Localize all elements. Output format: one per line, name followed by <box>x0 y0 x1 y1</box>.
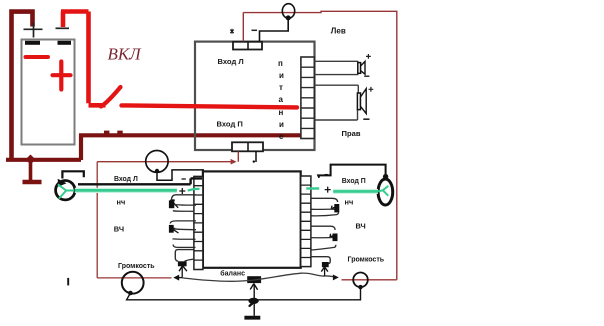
svg-text:и: и <box>279 120 284 129</box>
wire black from top circle to amp top connector <box>260 18 289 42</box>
label plus black above left terminal <box>24 23 43 38</box>
potentiometer R3 volume left loop wire <box>175 250 194 262</box>
wire maroon riser to power rail <box>79 135 83 160</box>
svg-text:баланс: баланс <box>220 269 245 277</box>
svg-text:Громкость: Громкость <box>348 257 385 264</box>
label red minus inside battery <box>26 55 49 59</box>
wire black stub from bottom connector <box>255 151 257 162</box>
label plus at right green <box>325 187 331 193</box>
jack JL tip wedge <box>58 179 67 187</box>
svg-text:Вход П: Вход П <box>217 120 243 129</box>
svg-text:ВКЛ: ВКЛ <box>108 45 143 64</box>
wire pot R7 lower <box>312 237 333 239</box>
wire green jog into preamp pin <box>188 189 200 191</box>
wire red thin preamp box left edge <box>96 162 98 278</box>
label minus mark near top connector <box>252 29 258 31</box>
potentiometer R8 volume right blob <box>322 262 329 267</box>
jack JL left input <box>62 171 83 178</box>
potentiometer R2 VCh left blob <box>169 225 174 233</box>
op-amp U1 amplifier block <box>195 42 315 150</box>
pin header right side of preamp <box>301 176 311 267</box>
potentiometer R8 volume right loop wire <box>311 257 330 264</box>
wire pot R1 lower <box>173 210 195 213</box>
label minus speaker1 <box>364 75 369 77</box>
svg-text:Вход Л: Вход Л <box>218 57 244 66</box>
potentiometer R6 nch right blob <box>334 204 339 212</box>
ground GND2 bar <box>244 316 260 320</box>
node junction blob on bottom bus <box>248 298 258 304</box>
speaker SP2 right <box>357 93 360 110</box>
wire pot R7 bottom hook <box>312 245 336 250</box>
wire red thin preamp box top edge with arrow <box>97 161 231 163</box>
wire green left channel <box>75 188 177 193</box>
wire to left speaker top <box>314 60 358 62</box>
wire black bottom bus <box>127 287 361 300</box>
wire black from knob to preamp top edge <box>157 170 204 180</box>
svg-text:Лев: Лев <box>331 27 346 36</box>
node dot right jack <box>383 174 388 179</box>
potentiometer R6 arrow <box>331 205 338 209</box>
potentiometer R3 volume left blob <box>178 261 187 266</box>
wire to right speaker bottom <box>314 110 357 120</box>
node dot volume right knob <box>358 285 362 289</box>
wire green stub into right pins <box>306 187 319 189</box>
svg-text:Вход П: Вход П <box>342 178 366 185</box>
battery terminal right <box>58 41 72 45</box>
speaker SP1 left <box>358 63 361 74</box>
wire red thin from bottom connector down <box>237 151 239 161</box>
svg-text:ВЧ: ВЧ <box>114 225 124 234</box>
potentiometer knob circle volume right <box>353 273 368 288</box>
wire gray curvy from volume left to volume right <box>182 273 336 281</box>
pin header right side of amplifier <box>301 57 314 139</box>
label minus speaker2 <box>363 118 369 120</box>
potentiometer knob circle volume left <box>122 272 144 294</box>
jack JR ellipse <box>378 179 393 205</box>
svg-text:Громкость: Громкость <box>118 263 155 270</box>
wire pot R2 lower <box>173 238 196 240</box>
svg-text:нч: нч <box>345 198 354 207</box>
label minus at right pins <box>325 174 329 176</box>
potentiometer R5 balance blob <box>247 276 261 283</box>
wire maroon battery plus loop top-left <box>12 12 33 160</box>
node junction maroon <box>26 155 36 165</box>
wire pot R1 top <box>171 195 196 201</box>
preamp U2 block <box>203 171 301 267</box>
svg-text:Прав: Прав <box>342 129 361 138</box>
potentiometer R7 arrow <box>330 234 337 238</box>
svg-text:и: и <box>279 71 284 80</box>
battery terminal left <box>25 41 40 45</box>
connector J1 top of amplifier <box>233 42 262 50</box>
pin header left side of preamp <box>194 176 203 269</box>
wire pot R6 top <box>311 198 338 202</box>
wire balance stem down to ground <box>253 284 255 316</box>
node dot under top circle <box>286 15 291 20</box>
label plus at left green <box>179 188 185 194</box>
wire maroon bottom horizontal to ground junction <box>6 158 81 162</box>
label I tick <box>67 278 69 286</box>
node dot under balance knob <box>155 169 159 173</box>
wire green right channel <box>333 189 378 194</box>
connector J2 bottom of amplifier <box>232 142 263 151</box>
potentiometer R8 arrow up <box>321 267 328 272</box>
potentiometer R5 arrow up <box>250 284 257 290</box>
wire red thin preamp box bottom edge <box>97 277 171 279</box>
potentiometer R1 arrow <box>171 200 179 208</box>
label plus speaker2 <box>369 87 374 92</box>
jack JR green plug symbol <box>378 186 388 196</box>
svg-text:е: е <box>279 132 284 141</box>
node dot at stub <box>253 160 255 162</box>
wire pot R7 top <box>311 226 335 230</box>
wire pot R8 stem down <box>324 268 326 277</box>
potentiometer knob circle balance top <box>146 151 168 173</box>
svg-text:п: п <box>278 59 283 68</box>
wire pot R2 hook <box>173 245 195 248</box>
potentiometer R1 nch left blob <box>169 200 174 208</box>
wire maroon power rail to amplifier <box>79 133 302 137</box>
label minus black above right terminal <box>56 27 70 29</box>
connector knob circle top <box>282 4 294 19</box>
wire red power to amplifier <box>122 105 298 107</box>
label red plus inside battery <box>53 62 71 90</box>
wire arrow pointing right at volume right <box>333 275 339 281</box>
jack JL circle <box>56 181 75 200</box>
wire pot R3 second <box>185 259 195 261</box>
potentiometer R7 VCh right blob <box>333 234 338 242</box>
node dot volume left knob <box>128 291 133 296</box>
label minus at left black wire <box>182 178 186 180</box>
label star mark near top connector <box>230 29 234 34</box>
wire maroon stub to ground <box>29 160 33 181</box>
wire red thin from top connector up <box>242 12 244 41</box>
wire to right speaker top <box>314 85 358 93</box>
wire pot R2 mid <box>174 228 197 231</box>
wire red thin bottom right segment <box>342 279 397 281</box>
svg-text:а: а <box>279 95 284 104</box>
svg-text:Вход Л: Вход Л <box>114 176 138 183</box>
wire black left input signal <box>78 178 202 184</box>
battery BT1 <box>22 40 75 145</box>
wire pot R6 mid <box>312 208 334 210</box>
wire pot R3 stem down <box>181 267 183 278</box>
wire pot R1 hook <box>170 221 196 224</box>
node bump 1 on maroon rail <box>104 131 109 136</box>
svg-text:т: т <box>279 83 283 92</box>
node bump 2 on maroon rail <box>117 131 122 136</box>
ground GND1 <box>23 180 42 185</box>
wire to left speaker bottom <box>314 61 358 74</box>
potentiometer R2 arrow <box>171 228 179 233</box>
wire red thin top rail and right side down <box>243 11 396 280</box>
label plus speaker1 <box>366 54 371 59</box>
wire red from battery minus terminal to switch <box>61 12 106 106</box>
jack JR right input bracket <box>318 165 385 178</box>
wire black arrow pointing left at red line <box>176 277 182 279</box>
svg-text:нч: нч <box>117 198 126 207</box>
wire pot R1 mid <box>174 203 196 206</box>
potentiometer R3 arrow up <box>179 266 187 271</box>
switch SW1 blade <box>101 87 121 107</box>
svg-text:ВЧ: ВЧ <box>356 222 366 231</box>
jack JL green plug symbol <box>58 184 74 198</box>
wire pot R6 lower <box>312 212 339 215</box>
